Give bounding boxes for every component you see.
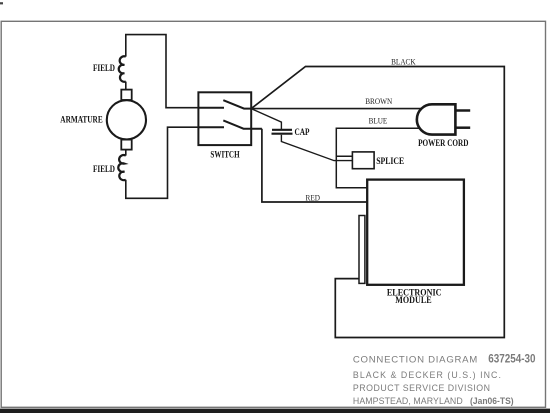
svg-text:BROWN: BROWN <box>365 96 392 106</box>
svg-text:SWITCH: SWITCH <box>210 151 240 161</box>
svg-text:BLACK: BLACK <box>391 57 416 67</box>
svg-text:FIELD: FIELD <box>93 165 115 175</box>
svg-text:BLACK & DECKER (U.S.) INC.: BLACK & DECKER (U.S.) INC. <box>353 370 501 380</box>
svg-text:BLUE: BLUE <box>369 116 388 126</box>
svg-text:FIELD: FIELD <box>93 64 115 74</box>
svg-text:POWER CORD: POWER CORD <box>418 139 468 149</box>
svg-text:PRODUCT SERVICE DIVISION: PRODUCT SERVICE DIVISION <box>353 383 490 393</box>
svg-text:SPLICE: SPLICE <box>376 157 404 167</box>
svg-text:RED: RED <box>306 193 321 203</box>
svg-text:CONNECTION DIAGRAM: CONNECTION DIAGRAM <box>353 355 477 366</box>
svg-text:(Jan06-TS): (Jan06-TS) <box>470 396 514 407</box>
svg-text:HAMPSTEAD, MARYLAND: HAMPSTEAD, MARYLAND <box>353 396 463 406</box>
svg-text:CAP: CAP <box>295 128 310 138</box>
svg-text:637254-30: 637254-30 <box>488 352 536 366</box>
svg-text:ARMATURE: ARMATURE <box>60 115 102 125</box>
svg-text:MODULE: MODULE <box>395 296 431 306</box>
